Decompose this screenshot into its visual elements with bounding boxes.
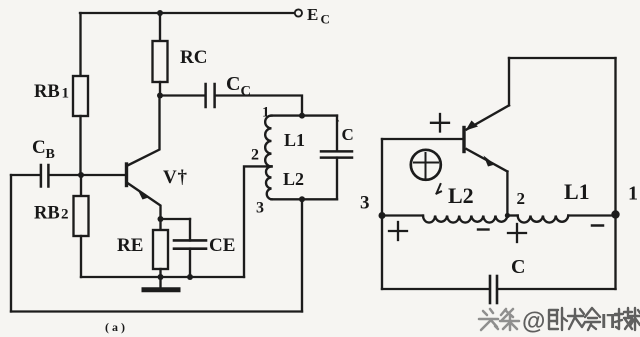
wire bottom box bottom-left [382, 288, 488, 290]
label CE [209, 235, 235, 256]
wire tank top rail [272, 114, 338, 116]
capacitor C [490, 276, 497, 303]
svg-text:C: C [342, 125, 354, 144]
svg-text:L1: L1 [284, 130, 305, 150]
svg-text:1: 1 [262, 105, 270, 121]
wire RC top [159, 13, 161, 41]
wire rail left to L2 [382, 214, 423, 216]
wire tank bottom down [301, 199, 303, 311]
resistor RE [153, 230, 168, 269]
svg-text:L2: L2 [448, 183, 474, 208]
wire tank cap right branch bottom [336, 158, 338, 200]
wire bottom box bottom-right [499, 288, 616, 290]
transistor collector diagonal [467, 105, 510, 129]
svg-text:2: 2 [61, 207, 69, 223]
capacitor CC [206, 84, 215, 107]
label L2 [283, 169, 304, 189]
node RE bottom [158, 274, 164, 280]
svg-text:RB: RB [34, 82, 60, 102]
svg-text:C: C [226, 73, 240, 95]
plus sign above base [431, 114, 449, 132]
svg-text:C: C [32, 137, 46, 158]
svg-text:@: @ [522, 308, 545, 335]
label C tank [336, 117, 354, 144]
wire CE top [189, 219, 191, 241]
svg-text:1: 1 [628, 183, 638, 205]
label RB1 [34, 82, 69, 102]
svg-text:RC: RC [180, 47, 207, 68]
label pin 3 [256, 200, 264, 217]
watermark char 条 [500, 309, 519, 330]
transistor collector arrow [466, 121, 479, 131]
node tank top [299, 113, 305, 119]
wire emitter down to node 2 [506, 172, 508, 216]
capacitor C tank [321, 151, 352, 157]
wire rail node2 gap [507, 214, 517, 216]
plus sign below node3 [389, 222, 407, 240]
wire CB left [11, 174, 40, 176]
minus sign below L1 [592, 224, 603, 227]
svg-text:IT: IT [601, 311, 619, 333]
label CC [226, 73, 251, 100]
label (a) [105, 320, 128, 334]
node collector junction [157, 93, 163, 99]
label pin 2 [251, 147, 259, 164]
label node 1 [628, 183, 638, 205]
wire bottom box right [614, 216, 616, 290]
wire top box rail [509, 57, 616, 59]
wire collector riser [508, 58, 510, 105]
inductor L1 [265, 116, 271, 167]
svg-text:3: 3 [256, 200, 264, 217]
svg-text:L2: L2 [283, 169, 304, 189]
capacitor CB [41, 165, 49, 187]
wire tank cap right branch top [336, 116, 338, 151]
wire long bottom return [11, 310, 302, 312]
inductor L2 [423, 216, 507, 223]
svg-text:E: E [307, 5, 318, 24]
watermark char 龙 [568, 309, 585, 329]
wire RE bottom [159, 269, 161, 277]
inductor L1 [518, 216, 569, 223]
node 2 [505, 213, 510, 218]
svg-text:(a): (a) [105, 320, 128, 334]
transistor VT emitter arrow [137, 189, 149, 200]
transistor emitter diagonal [467, 149, 508, 172]
wire base [50, 174, 126, 176]
wire tap2 to ground rail [244, 166, 272, 277]
wire left side down [381, 139, 383, 216]
transistor bar [462, 128, 465, 152]
wire RB2 top [80, 175, 82, 196]
svg-text:RB: RB [34, 204, 60, 224]
wire RB1 bottom [79, 116, 81, 175]
wire left riser [10, 175, 12, 312]
node emitter junction [158, 216, 164, 222]
svg-text:B: B [46, 147, 55, 162]
ground [159, 277, 161, 287]
svg-text:3: 3 [360, 193, 370, 214]
wire right side down [614, 58, 616, 216]
label node 2 [517, 189, 526, 208]
node 3 [379, 212, 386, 219]
transistor emitter arrow [484, 156, 496, 167]
svg-text:RE: RE [117, 235, 143, 256]
wire tank bottom rail [272, 198, 338, 200]
svg-text:1: 1 [62, 86, 70, 102]
node tank bottom [299, 196, 305, 202]
label RB2 [34, 204, 69, 224]
wire RB2 bottom [80, 236, 82, 277]
label RE [117, 235, 143, 256]
wire emitter to CE [161, 218, 191, 220]
svg-text:L1: L1 [564, 179, 590, 204]
watermark char 技 [615, 308, 632, 329]
resistor RC [153, 41, 168, 82]
label L2 [448, 183, 474, 208]
plus sign below node2 [508, 224, 526, 242]
watermark char 卧 [549, 308, 567, 330]
node base junction [78, 172, 84, 178]
transistor VT base bar [125, 164, 128, 186]
terminal EC open circle [295, 9, 302, 16]
label node 3 [360, 193, 370, 214]
svg-text:C: C [241, 84, 251, 100]
svg-text:`: ` [336, 117, 340, 131]
minus sign below L2 [478, 228, 489, 230]
resistor RB2 [74, 196, 89, 236]
inductor L2 [266, 166, 272, 199]
label RC [180, 47, 207, 68]
svg-text:2: 2 [251, 147, 259, 164]
wire CE bottom [189, 249, 191, 277]
svg-text:†: † [178, 167, 188, 188]
transistor VT collector [128, 96, 160, 166]
label C [511, 256, 525, 278]
resistor RB1 [73, 76, 88, 116]
wire CC to tank [216, 96, 302, 116]
watermark char 术 [630, 308, 640, 330]
wire RC bottom [159, 82, 161, 96]
wire bottom box left [381, 216, 383, 290]
svg-text:2: 2 [517, 189, 526, 208]
wire collector to CC [160, 94, 204, 96]
svg-text:V: V [163, 167, 177, 188]
label VT [163, 167, 188, 188]
node CE bottom [187, 274, 193, 280]
label EC [307, 5, 330, 27]
capacitor CE [174, 240, 206, 248]
wire top supply rail [80, 12, 295, 14]
label L1 [564, 179, 590, 204]
wire base [382, 138, 463, 140]
label L1 [284, 130, 305, 150]
svg-text:CE: CE [209, 235, 235, 256]
svg-text:C: C [321, 12, 330, 27]
wire emitter ground rail [81, 276, 244, 278]
transistor VT emitter [128, 183, 161, 219]
small tick below circle [437, 184, 442, 194]
node at RC top [157, 10, 163, 16]
node 1 [611, 210, 619, 218]
watermark char 头 [479, 309, 498, 330]
wire RB1 top [79, 13, 81, 76]
wire rail L1 to node1 [568, 214, 615, 216]
watermark char 会 [585, 308, 600, 330]
svg-text:C: C [511, 256, 525, 278]
wire RE top [159, 219, 161, 230]
label pin 1 [262, 105, 270, 121]
watermark 头条 @卧龙会IT技术 [479, 308, 640, 335]
label CB [32, 137, 55, 162]
phase source circle plus [411, 150, 441, 180]
